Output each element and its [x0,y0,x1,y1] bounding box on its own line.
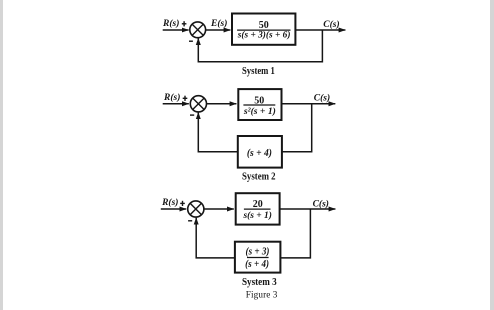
svg-text:E(s): E(s) [210,18,227,29]
svg-text:s(s + 1): s(s + 1) [242,210,271,221]
svg-text:R(s): R(s) [161,197,178,208]
minus sign at summer S3 [188,220,192,222]
wire feedback S2: output drop to block H2 [282,104,312,152]
node E(s) label [210,18,227,29]
node R(s) label system 2 [163,92,180,103]
node R(s) label system 3 [161,197,178,208]
wire summer S1 to block G1 [206,29,231,31]
wire block G1 output to C(s) [296,29,346,31]
node C(s) label system 1 [323,19,339,30]
svg-text:s²(s + 1): s²(s + 1) [243,106,276,117]
svg-text:System 3: System 3 [242,277,277,288]
svg-text:(s + 4): (s + 4) [247,148,272,159]
block G1: 50 / s(s+3)(s+6) [232,14,295,45]
svg-text:C(s): C(s) [323,19,339,30]
wire input R(s) to summer S1 [163,29,189,31]
svg-text:R(s): R(s) [163,92,180,103]
node C(s) label system 2 [314,93,330,104]
plus sign at summing junction S1 [182,21,187,26]
svg-text:(s + 4): (s + 4) [245,259,269,270]
wire block G2 output to C(s) [282,103,336,105]
minus sign at summer S1 [189,40,193,42]
wire block G3 output to C(s) [280,208,336,210]
svg-text:Figure 3: Figure 3 [246,289,278,299]
svg-text:R(s): R(s) [162,18,179,29]
svg-text:50: 50 [259,20,269,31]
summing junction S1 [190,22,206,38]
svg-text:System 1: System 1 [242,66,275,77]
plus sign at summing junction S3 [180,201,185,206]
summing junction S3 [188,201,204,217]
caption Figure 3 [246,289,278,299]
block H3: (s+3)/(s+4) [235,242,281,273]
caption System 1 [242,66,275,77]
wire feedback S3: block H3 to summer S3 [196,218,235,258]
node C(s) label system 3 [313,198,329,209]
wire summer S3 to block G3 [204,208,234,210]
svg-text:C(s): C(s) [314,93,330,104]
node R(s) label system 1 [162,18,179,29]
svg-text:s(s + 3)(s + 6): s(s + 3)(s + 6) [237,30,291,41]
wire summer S2 to block G2 [207,103,237,105]
wire input R(s) to summer S3 [161,208,186,210]
svg-text:(s + 3): (s + 3) [246,247,270,258]
block G2: 50 / s^2(s+1) [238,89,281,120]
block H2: (s+4) [238,136,282,168]
minus sign at summer S2 [190,114,194,116]
wire feedback S3: output drop to block H3 [280,209,310,258]
summing junction S2 [190,96,206,112]
plus sign at summing junction S2 [183,96,188,101]
wire input R(s) to summer S2 [163,103,189,105]
wire feedback S1: drop from output node [198,30,322,62]
caption System 2 [242,172,276,183]
svg-text:20: 20 [253,199,263,210]
svg-text:System 2: System 2 [242,172,276,183]
block G3: 20 / s(s+1) [236,193,280,224]
svg-text:C(s): C(s) [313,198,329,209]
wire feedback S2: block H2 to summer S2 [198,112,238,151]
caption System 3 [242,277,277,288]
